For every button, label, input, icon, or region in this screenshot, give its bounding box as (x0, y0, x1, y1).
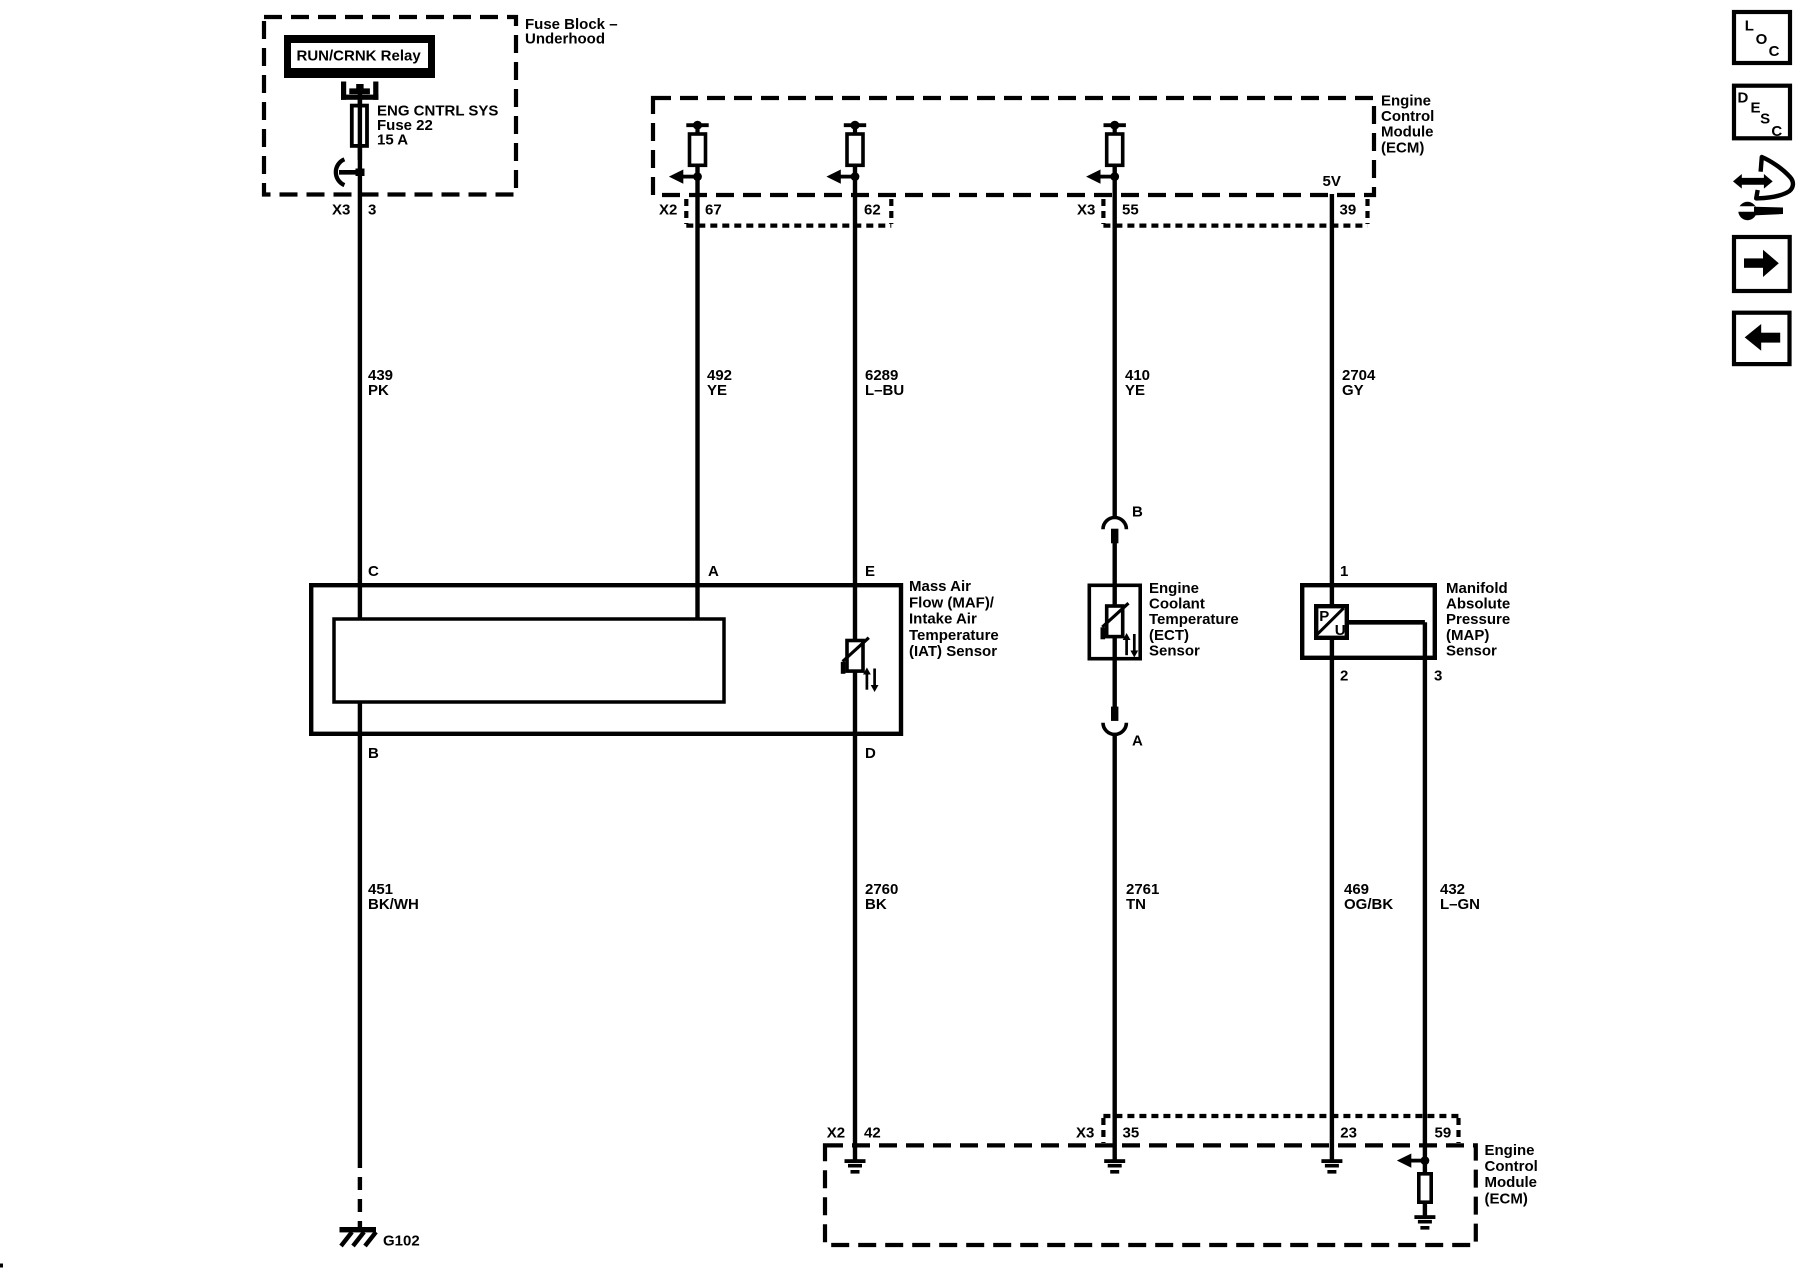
svg-text:Temperature: Temperature (909, 627, 999, 644)
svg-text:Engine: Engine (1485, 1142, 1535, 1159)
svg-text:L–GN: L–GN (1440, 896, 1480, 913)
svg-text:(IAT) Sensor: (IAT) Sensor (909, 643, 997, 660)
svg-text:A: A (1132, 733, 1143, 750)
svg-text:TN: TN (1126, 896, 1146, 913)
svg-text:B: B (1132, 504, 1143, 521)
svg-text:X3: X3 (1076, 1125, 1094, 1142)
svg-text:(ECM): (ECM) (1485, 1190, 1528, 1207)
svg-text:B: B (368, 745, 379, 762)
svg-text:55: 55 (1122, 202, 1139, 219)
svg-text:C: C (368, 563, 379, 580)
svg-text:C: C (1769, 43, 1780, 60)
svg-text:(ECM): (ECM) (1381, 139, 1424, 156)
svg-text:E: E (1751, 100, 1761, 117)
svg-text:3: 3 (368, 202, 376, 219)
svg-text:D: D (865, 745, 876, 762)
svg-text:G102: G102 (383, 1232, 420, 1249)
svg-text:E: E (865, 563, 875, 580)
svg-text:35: 35 (1123, 1125, 1140, 1142)
svg-text:Manifold: Manifold (1446, 580, 1508, 597)
svg-text:C: C (1771, 123, 1782, 140)
svg-text:Control: Control (1381, 108, 1434, 125)
svg-text:P: P (1319, 608, 1329, 625)
svg-text:Mass Air: Mass Air (909, 578, 971, 595)
svg-text:PK: PK (368, 382, 389, 399)
svg-text:59: 59 (1435, 1125, 1452, 1142)
svg-text:O: O (1756, 31, 1768, 48)
svg-text:Engine: Engine (1381, 92, 1431, 109)
svg-text:Temperature: Temperature (1149, 611, 1239, 628)
svg-text:39: 39 (1340, 202, 1357, 219)
svg-text:15 A: 15 A (377, 132, 408, 149)
svg-text:Absolute: Absolute (1446, 596, 1510, 613)
svg-text:X2: X2 (827, 1125, 845, 1142)
svg-text:67: 67 (705, 202, 722, 219)
svg-text:X3: X3 (332, 202, 350, 219)
svg-text:3: 3 (1434, 668, 1442, 685)
svg-text:BK: BK (865, 896, 887, 913)
svg-text:Module: Module (1381, 124, 1434, 141)
svg-text:Sensor: Sensor (1149, 642, 1200, 659)
svg-text:A: A (708, 563, 719, 580)
svg-text:23: 23 (1340, 1125, 1357, 1142)
svg-text:Sensor: Sensor (1446, 642, 1497, 659)
svg-text:YE: YE (707, 382, 727, 399)
svg-text:Coolant: Coolant (1149, 596, 1205, 613)
svg-text:L–BU: L–BU (865, 382, 904, 399)
svg-text:5V: 5V (1323, 173, 1341, 190)
svg-text:(ECT): (ECT) (1149, 627, 1189, 644)
svg-text:1: 1 (1340, 563, 1348, 580)
svg-text:X3: X3 (1077, 202, 1095, 219)
svg-text:Intake Air: Intake Air (909, 611, 977, 628)
svg-text:S: S (1760, 110, 1770, 127)
svg-text:62: 62 (864, 202, 881, 219)
svg-text:Pressure: Pressure (1446, 611, 1510, 628)
svg-text:Underhood: Underhood (525, 31, 605, 48)
svg-text:Engine: Engine (1149, 580, 1199, 597)
svg-text:L: L (1745, 18, 1754, 35)
svg-text:OG/BK: OG/BK (1344, 896, 1393, 913)
svg-text:2: 2 (1340, 668, 1348, 685)
svg-text:RUN/CRNK Relay: RUN/CRNK Relay (297, 47, 422, 64)
svg-text:D: D (1738, 89, 1749, 106)
svg-text:(MAP): (MAP) (1446, 627, 1489, 644)
svg-text:Module: Module (1485, 1174, 1538, 1191)
svg-text:Flow (MAF)/: Flow (MAF)/ (909, 594, 995, 611)
svg-text:U: U (1335, 622, 1346, 639)
svg-text:Control: Control (1485, 1158, 1538, 1175)
svg-text:42: 42 (864, 1125, 881, 1142)
svg-text:GY: GY (1342, 382, 1364, 399)
svg-text:YE: YE (1125, 382, 1145, 399)
svg-text:BK/WH: BK/WH (368, 896, 419, 913)
svg-text:X2: X2 (659, 202, 677, 219)
